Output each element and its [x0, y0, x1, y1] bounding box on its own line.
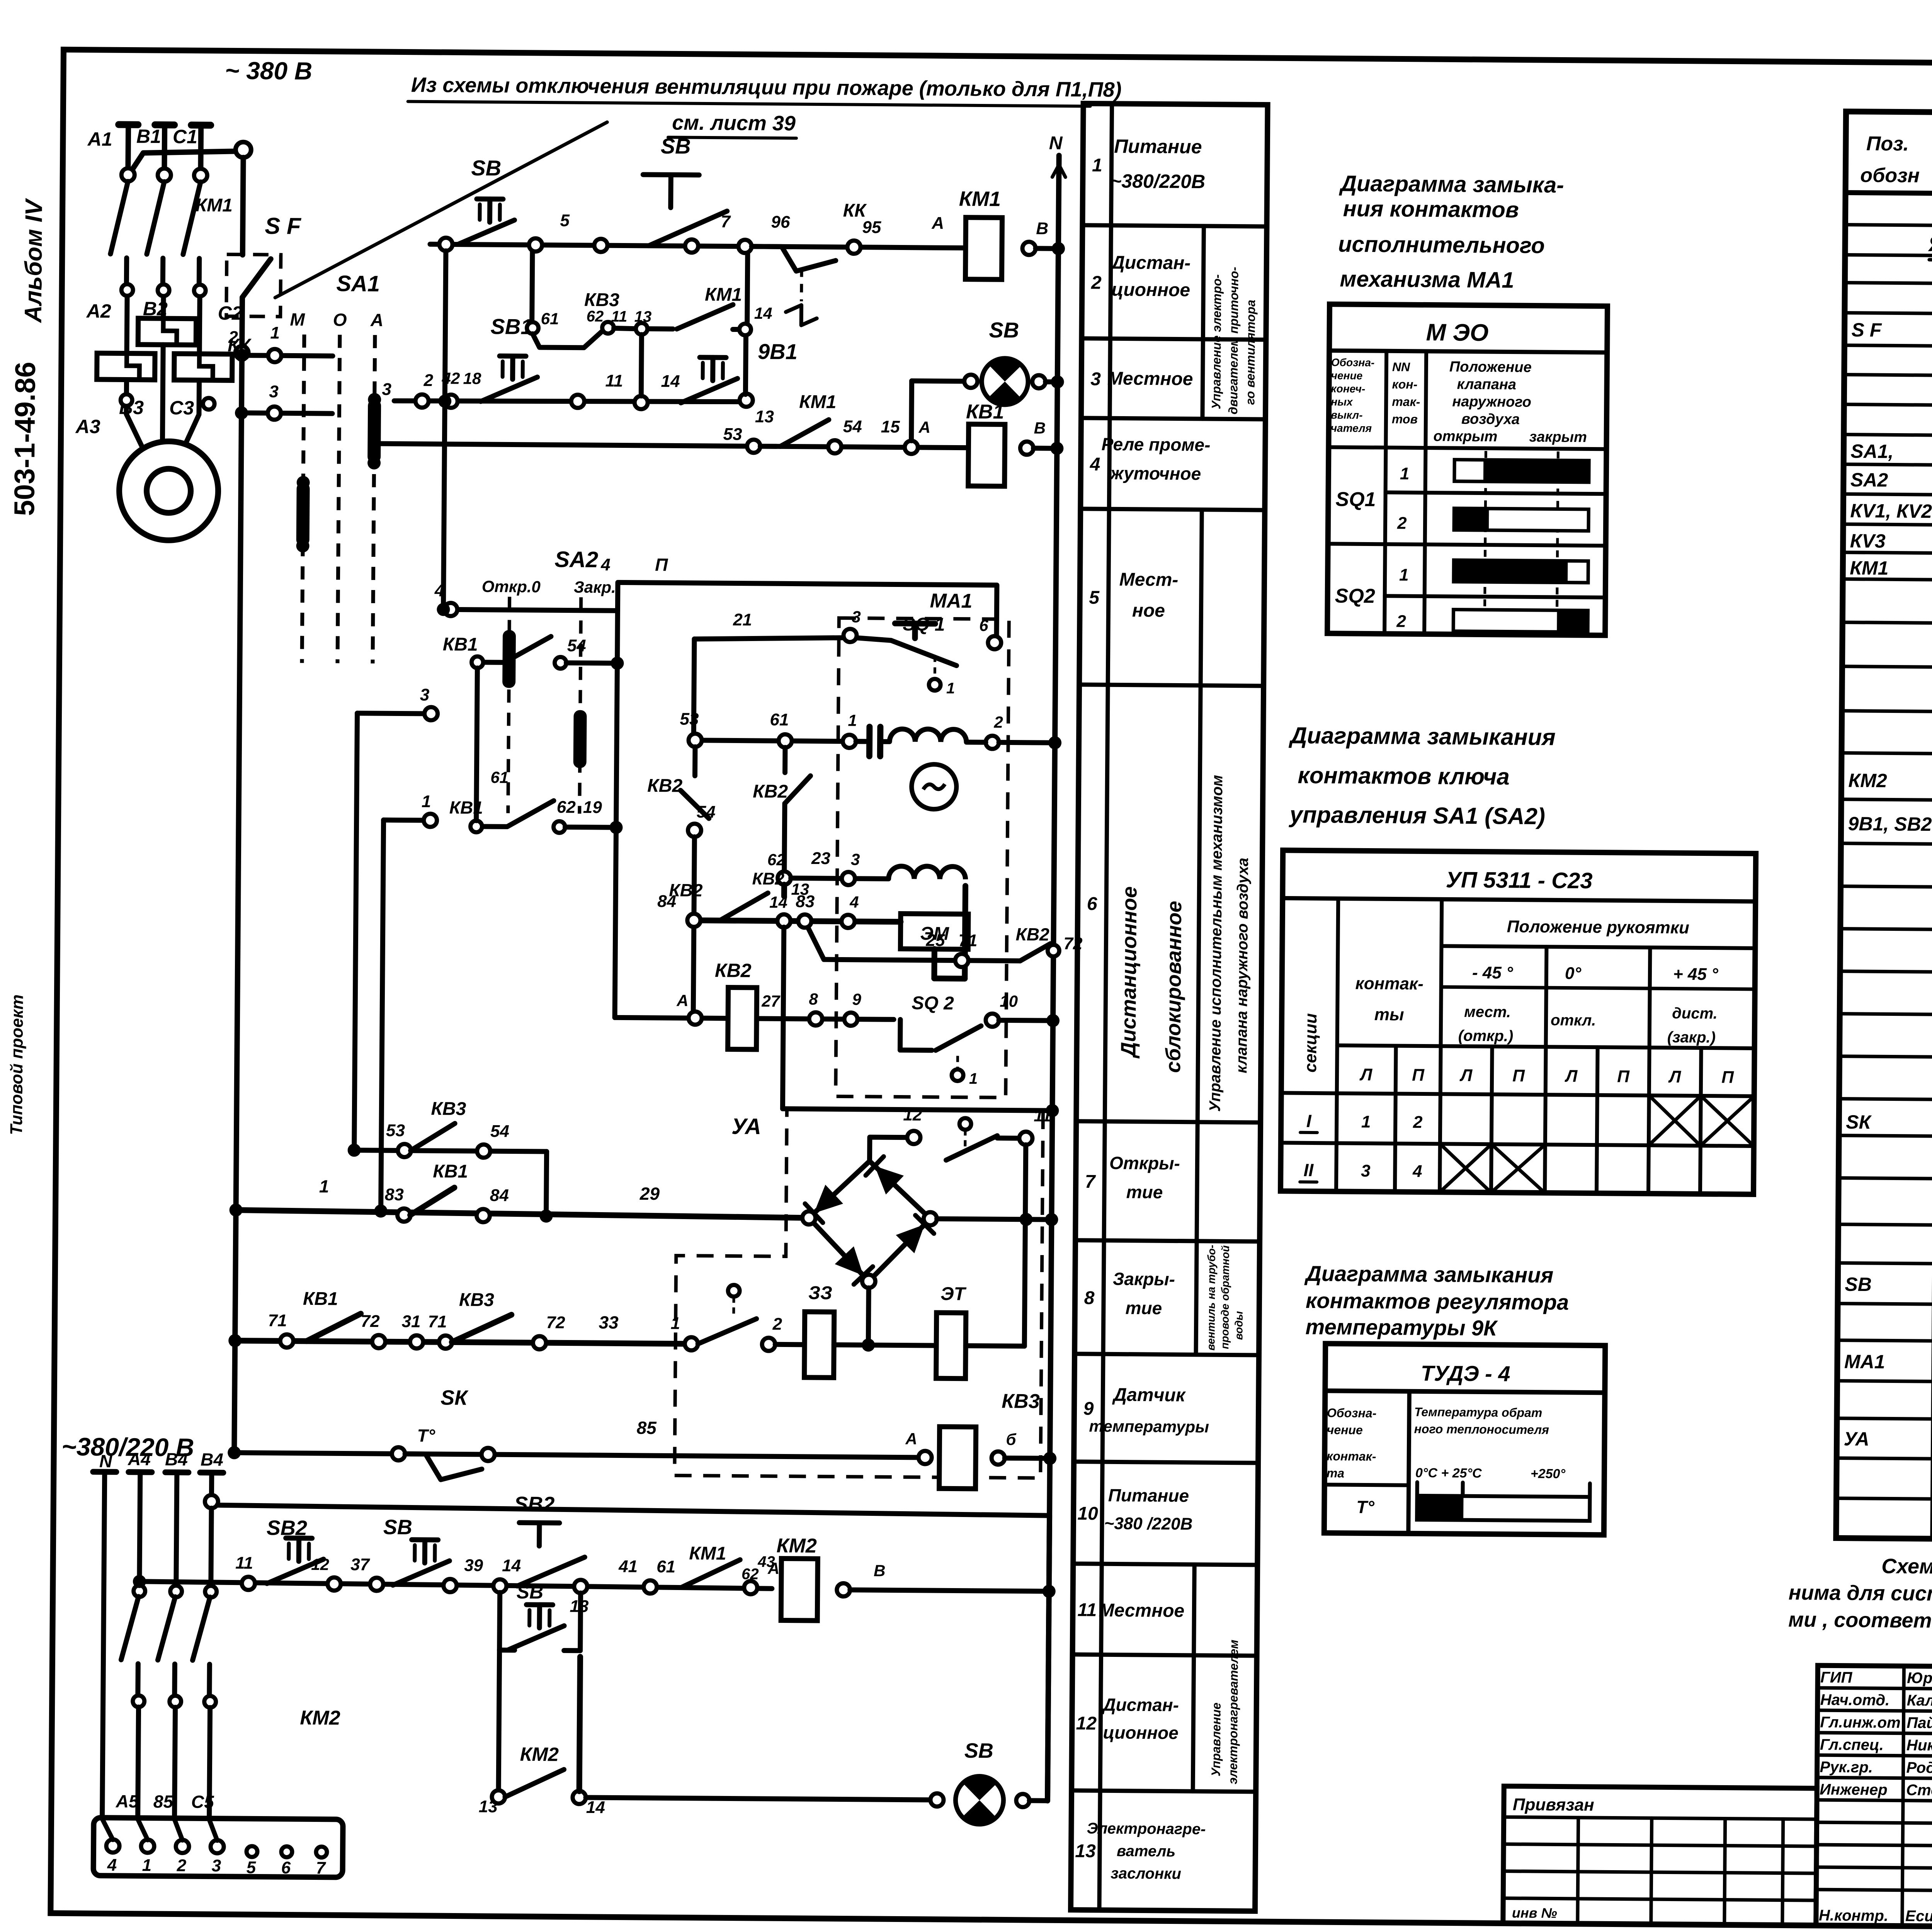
- svg-text:Дистан-: Дистан-: [1110, 252, 1190, 273]
- connector pin 4: [106, 1839, 119, 1852]
- row3 circle A: [905, 441, 918, 454]
- svg-text:О: О: [333, 310, 347, 330]
- svg-text:КМ1: КМ1: [196, 195, 233, 216]
- svg-text:Привязан: Привязан: [1513, 1795, 1594, 1815]
- svg-text:А: А: [918, 418, 931, 436]
- row11 circle b: [370, 1578, 383, 1591]
- connector pin 5: [247, 1846, 257, 1857]
- svg-text:4: 4: [434, 581, 444, 600]
- svg-text:секции: секции: [1301, 1013, 1320, 1073]
- svg-text:2: 2: [1091, 272, 1102, 293]
- row 83 KV1 84: [236, 1210, 809, 1218]
- svg-text:Ящик управления 1А.: Ящик управления 1А.: [1928, 231, 1932, 257]
- svg-text:ного теплоносителя: ного теплоносителя: [1414, 1422, 1549, 1437]
- row2 node 13: [740, 394, 753, 407]
- svg-text:П: П: [1512, 1066, 1525, 1085]
- svg-text:SА2: SА2: [1850, 469, 1888, 491]
- svg-text:ЗЗ: ЗЗ: [808, 1283, 832, 1303]
- svg-text:6: 6: [281, 1858, 291, 1877]
- svg-text:наружного: наружного: [1452, 393, 1531, 410]
- svg-text:го вентилятора: го вентилятора: [1243, 300, 1258, 405]
- svg-text:В: В: [1034, 419, 1046, 437]
- connector pin 3: [211, 1840, 224, 1853]
- svg-text:54: 54: [697, 803, 716, 821]
- svg-text:Инженер: Инженер: [1820, 1781, 1888, 1798]
- svg-text:10: 10: [1077, 1503, 1098, 1524]
- KM2 coil: [781, 1558, 818, 1621]
- svg-text:Температура обрат: Температура обрат: [1414, 1405, 1543, 1420]
- svg-text:А2: А2: [86, 300, 111, 322]
- svg-text:4: 4: [600, 555, 611, 574]
- svg-text:Положение рукоятки: Положение рукоятки: [1507, 917, 1690, 937]
- svg-text:3: 3: [1090, 369, 1101, 389]
- svg-text:SВ: SВ: [471, 156, 501, 180]
- svg-text:S F: S F: [1851, 319, 1882, 341]
- circle 2 row: [986, 736, 999, 749]
- SA1 dashed line O: [337, 335, 340, 663]
- svg-text:9: 9: [1083, 1398, 1094, 1419]
- row3 wire: [374, 444, 971, 448]
- titleblock signature grid: [1902, 1666, 1904, 1926]
- svg-text:Гл.спец.: Гл.спец.: [1820, 1736, 1884, 1753]
- svg-text:Н.контр.: Н.контр.: [1819, 1907, 1888, 1924]
- row 53-61 wire: [695, 740, 867, 742]
- svg-text:Л: Л: [1565, 1067, 1578, 1086]
- svg-text:МА1: МА1: [930, 590, 972, 612]
- svg-text:А: А: [676, 991, 689, 1009]
- KV2 coil row wire: [615, 1017, 894, 1019]
- svg-text:85: 85: [637, 1418, 657, 1438]
- svg-text:А: А: [931, 214, 944, 233]
- svg-text:+250°: +250°: [1531, 1466, 1566, 1481]
- svg-text:так-: так-: [1392, 395, 1420, 409]
- svg-text:Есина: Есина: [1905, 1908, 1932, 1925]
- svg-text:откл.: откл.: [1551, 1012, 1596, 1029]
- svg-text:SQ 2: SQ 2: [912, 993, 954, 1014]
- button SB row11: [412, 1537, 438, 1542]
- SB parallel branch: [500, 1592, 500, 1650]
- svg-text:ЭТ: ЭТ: [940, 1284, 967, 1304]
- svg-text:13: 13: [479, 1797, 498, 1816]
- svg-text:9В1: 9В1: [758, 339, 798, 364]
- SA2 dashed line 1: [508, 597, 510, 813]
- svg-text:- 45 °: - 45 °: [1472, 963, 1513, 983]
- KV2 row right: [1046, 1014, 1060, 1027]
- row1 circle 7: [685, 240, 698, 253]
- svg-text:Юрин: Юрин: [1907, 1670, 1932, 1687]
- row8 contact KV1: [280, 1334, 293, 1347]
- vt subcol line rows 7-8: [1196, 1122, 1197, 1355]
- svg-text:ционное: ционное: [1103, 1722, 1179, 1743]
- svg-text:12: 12: [311, 1555, 329, 1573]
- svg-text:~ 380 В: ~ 380 В: [225, 56, 312, 85]
- bridge top wire: [870, 1137, 914, 1162]
- svg-text:10: 10: [1000, 992, 1018, 1010]
- KV2 contact b: [781, 884, 787, 896]
- phase bus terminal 1: [119, 121, 138, 128]
- SF callout line: [275, 120, 607, 300]
- feeder tap circle: [205, 1495, 218, 1508]
- svg-text:А: А: [767, 1559, 780, 1577]
- svg-text:Местное: Местное: [1107, 368, 1193, 389]
- svg-text:SQ 1: SQ 1: [903, 614, 945, 635]
- svg-text:84: 84: [490, 1186, 509, 1205]
- svg-text:Мест-: Мест-: [1119, 569, 1179, 590]
- svg-text:41: 41: [618, 1557, 638, 1576]
- svg-text:~380 /220В: ~380 /220В: [1104, 1514, 1192, 1534]
- svg-text:6: 6: [1087, 894, 1097, 914]
- svg-text:SВ2: SВ2: [267, 1516, 307, 1540]
- row11 node: [493, 1579, 507, 1592]
- left branch 1230: [476, 668, 478, 821]
- row 25-71 wire: [824, 959, 1020, 961]
- svg-text:КV1, КV2: КV1, КV2: [1850, 500, 1932, 522]
- EM loop: [965, 886, 966, 979]
- svg-text:SВ: SВ: [517, 1581, 544, 1603]
- svg-text:0°С + 25°С: 0°С + 25°С: [1415, 1466, 1482, 1481]
- row11 circle 13: [574, 1580, 587, 1593]
- button SB1: [500, 354, 526, 359]
- svg-text:конеч-: конеч-: [1331, 383, 1365, 395]
- svg-text:23: 23: [811, 849, 830, 868]
- row circles 8 9: [809, 1012, 822, 1026]
- svg-text:11: 11: [1034, 1106, 1051, 1125]
- svg-text:вентиль на трубо-: вентиль на трубо-: [1205, 1245, 1218, 1350]
- UP seccii col: [1336, 898, 1338, 1191]
- button 9B1: [700, 355, 726, 360]
- svg-text:13: 13: [755, 407, 774, 426]
- svg-text:SВ: SВ: [964, 1739, 993, 1763]
- svg-text:контактов регулятора: контактов регулятора: [1306, 1288, 1569, 1315]
- diode 2: [874, 1166, 904, 1195]
- svg-text:Типовой проект: Типовой проект: [7, 994, 27, 1135]
- svg-text:8: 8: [1084, 1288, 1095, 1308]
- svg-text:71: 71: [428, 1312, 447, 1331]
- SA1 dashed line A: [372, 335, 375, 663]
- diode 1: [814, 1185, 843, 1213]
- svg-text:72: 72: [361, 1312, 380, 1331]
- left branch x920: [354, 713, 357, 1150]
- button SB2 b: [519, 1520, 560, 1526]
- svg-text:62: 62: [557, 798, 576, 816]
- button SB parallel: [526, 1602, 553, 1607]
- YA dashed box: [675, 1109, 1043, 1478]
- svg-text:ния контактов: ния контактов: [1343, 196, 1519, 222]
- svg-text:Л: Л: [1668, 1067, 1681, 1086]
- svg-text:КВ2: КВ2: [669, 880, 703, 900]
- svg-text:Нач.отд.: Нач.отд.: [1820, 1691, 1890, 1709]
- svg-text:18: 18: [463, 369, 481, 388]
- svg-text:Дистан-: Дистан-: [1101, 1694, 1179, 1715]
- UP X I b: [1701, 1096, 1754, 1146]
- MEO title row: [1329, 350, 1607, 352]
- KV2 coil: [728, 987, 757, 1049]
- svg-text:чение: чение: [1327, 1423, 1363, 1437]
- svg-text:SА1: SА1: [336, 271, 380, 296]
- svg-text:NN: NN: [1392, 360, 1410, 374]
- svg-text:инв №: инв №: [1512, 1905, 1557, 1921]
- svg-text:А3: А3: [75, 416, 100, 437]
- svg-text:14: 14: [502, 1556, 521, 1575]
- svg-text:7: 7: [1085, 1172, 1096, 1192]
- svg-text:5: 5: [247, 1858, 256, 1877]
- diag 83 to 25row: [808, 927, 824, 959]
- connector wires: [102, 1819, 113, 1840]
- svg-text:15: 15: [881, 417, 900, 436]
- svg-text:Родионова: Родионова: [1906, 1759, 1932, 1777]
- svg-text:31: 31: [401, 1312, 420, 1331]
- SA1 closed bar M: [296, 483, 310, 546]
- svg-text:та: та: [1327, 1466, 1345, 1480]
- svg-text:SВ: SВ: [383, 1515, 412, 1539]
- svg-text:SК: SК: [440, 1386, 469, 1410]
- titleblock signature box: [1816, 1665, 1932, 1927]
- svg-text:61: 61: [541, 310, 559, 328]
- svg-text:39: 39: [464, 1556, 483, 1575]
- KV1 aux 53-54: [478, 636, 551, 663]
- svg-text:62: 62: [587, 308, 604, 325]
- parts table outer: [1836, 112, 1932, 1544]
- svg-text:1: 1: [1400, 464, 1410, 483]
- UP X II b: [1491, 1144, 1545, 1193]
- svg-text:І: І: [1306, 1111, 1312, 1131]
- KV1 aux 61-62-19: [476, 800, 554, 827]
- svg-text:КМ1: КМ1: [799, 392, 837, 413]
- svg-text:КВ3: КВ3: [1002, 1390, 1040, 1413]
- wire 21 row: [694, 637, 844, 640]
- svg-text:С5: С5: [191, 1792, 215, 1812]
- svg-text:ТУДЭ - 4: ТУДЭ - 4: [1421, 1361, 1510, 1386]
- KV3 coil A: [918, 1451, 932, 1464]
- svg-text:4: 4: [1412, 1162, 1422, 1181]
- svg-text:Откры-: Откры-: [1109, 1153, 1180, 1173]
- svg-text:П: П: [1721, 1068, 1734, 1087]
- svg-text:Рук.гр.: Рук.гр.: [1820, 1759, 1873, 1776]
- function table outer: [1071, 104, 1268, 1911]
- row 84-83-4 wire: [694, 920, 901, 922]
- KM1 main contact phase 1: [121, 168, 134, 181]
- connector pin 6: [281, 1846, 292, 1857]
- svg-text:SВ: SВ: [989, 318, 1019, 342]
- svg-text:КМ2: КМ2: [300, 1707, 340, 1730]
- KM1 aux contact: [636, 323, 647, 335]
- UP title row: [1282, 898, 1755, 901]
- KV3 coil out: [992, 1451, 1005, 1464]
- MEO bar row4: [1453, 610, 1588, 632]
- svg-text:КВ2: КВ2: [647, 776, 683, 796]
- svg-text:1: 1: [1399, 566, 1409, 585]
- left rail from SF: [234, 359, 242, 1453]
- svg-text:Датчик: Датчик: [1112, 1384, 1186, 1405]
- svg-text:33: 33: [599, 1312, 619, 1332]
- row1 circle 96: [738, 240, 752, 253]
- svg-text:открыт: открыт: [1433, 428, 1497, 445]
- svg-text:7: 7: [721, 212, 731, 231]
- svg-text:3: 3: [1361, 1162, 1371, 1180]
- svg-text:N: N: [1049, 133, 1063, 153]
- svg-text:проводе обратной: проводе обратной: [1219, 1245, 1231, 1349]
- svg-text:Реле проме-: Реле проме-: [1101, 434, 1210, 455]
- svg-text:503-1-49.86: 503-1-49.86: [8, 362, 41, 516]
- svg-text:14: 14: [769, 893, 787, 911]
- svg-text:Диаграмма замыка-: Диаграмма замыка-: [1338, 171, 1564, 197]
- svg-text:б: б: [1006, 1430, 1016, 1448]
- KV3 coil: [939, 1427, 976, 1489]
- svg-text:SВ: SВ: [1845, 1274, 1872, 1295]
- svg-text:КВ3: КВ3: [431, 1099, 466, 1119]
- motor feed wires: [126, 380, 144, 450]
- phase bus terminal 2: [155, 121, 174, 128]
- svg-text:клапана наружного воздуха: клапана наружного воздуха: [1233, 858, 1252, 1073]
- bridge left terminal: [802, 1211, 815, 1225]
- svg-text:71: 71: [958, 931, 977, 950]
- svg-text:29: 29: [639, 1184, 660, 1204]
- row11 circle 11: [242, 1577, 255, 1590]
- row9 wire SK: [234, 1453, 925, 1458]
- svg-text:КВ1: КВ1: [433, 1161, 468, 1182]
- svg-text:КВ2: КВ2: [753, 781, 788, 802]
- svg-text:двигателем приточно-: двигателем приточно-: [1226, 267, 1241, 414]
- row1 circle mid: [594, 239, 607, 252]
- svg-text:2: 2: [423, 371, 433, 390]
- svg-text:Т°: Т°: [417, 1425, 435, 1446]
- row11 circle 12: [328, 1577, 341, 1590]
- MEO outer: [1327, 304, 1607, 635]
- KV2 contact mid: [782, 747, 787, 772]
- row SA2-4 wire: [443, 609, 617, 611]
- diode 4: [896, 1224, 925, 1253]
- row8 left vertical: [228, 1334, 241, 1347]
- function table row lines: [1082, 225, 1267, 226]
- svg-text:мест.: мест.: [1464, 1003, 1511, 1021]
- svg-text:SQ2: SQ2: [1335, 585, 1376, 607]
- svg-text:72: 72: [546, 1313, 565, 1332]
- svg-text:Пайкин: Пайкин: [1906, 1714, 1932, 1732]
- limit switch SQ1: [844, 629, 857, 642]
- svg-text:выкл-: выкл-: [1331, 409, 1363, 421]
- svg-text:25: 25: [925, 931, 945, 950]
- KV1 coil: [968, 424, 1005, 486]
- svg-text:3: 3: [212, 1856, 221, 1875]
- svg-text:2: 2: [1396, 612, 1406, 631]
- UP X I a: [1649, 1095, 1701, 1146]
- svg-text:4: 4: [107, 1855, 117, 1874]
- vt subcol line rows 11-12: [1193, 1565, 1194, 1791]
- SA2 closed bar 2: [573, 710, 587, 768]
- UP LP row top line: [1337, 1045, 1755, 1048]
- svg-text:54: 54: [490, 1122, 509, 1141]
- svg-text:КВ2: КВ2: [715, 959, 752, 981]
- privyazan grid: [1504, 1817, 1817, 1819]
- MEO bar row2: [1454, 509, 1588, 531]
- UP data row top: [1281, 1093, 1754, 1096]
- svg-text:53: 53: [386, 1121, 405, 1140]
- branch row1 left down: [443, 251, 446, 609]
- function table num column line: [1099, 104, 1112, 1910]
- svg-text:контактов ключа: контактов ключа: [1298, 762, 1510, 790]
- svg-text:ты: ты: [1374, 1005, 1404, 1024]
- svg-text:1: 1: [969, 1070, 978, 1087]
- svg-text:Обозна-: Обозна-: [1331, 356, 1375, 369]
- svg-text:11: 11: [235, 1554, 253, 1573]
- svg-text:С1: С1: [173, 126, 197, 147]
- inductor 2: [889, 866, 966, 879]
- svg-text:А: А: [905, 1430, 917, 1448]
- svg-text:2: 2: [772, 1315, 782, 1333]
- svg-text:12: 12: [1076, 1713, 1097, 1734]
- svg-text:кон-: кон-: [1392, 377, 1417, 391]
- svg-text:SВ: SВ: [661, 134, 691, 158]
- svg-text:SК: SК: [1846, 1111, 1872, 1133]
- signal lamp SB: [981, 358, 1028, 405]
- svg-text:71: 71: [268, 1311, 287, 1330]
- svg-text:чение: чение: [1331, 369, 1363, 382]
- svg-text:(откр.): (откр.): [1458, 1027, 1514, 1045]
- svg-text:5: 5: [560, 211, 570, 230]
- row1 circle 5: [529, 238, 542, 252]
- svg-text:Поз.: Поз.: [1866, 133, 1909, 155]
- svg-text:1: 1: [142, 1856, 152, 1875]
- wire 4-P to MA1 top: [617, 582, 997, 638]
- svg-text:1: 1: [270, 323, 280, 342]
- svg-text:2: 2: [1397, 514, 1407, 532]
- svg-text:КВ3: КВ3: [584, 290, 620, 311]
- row2 circle 11: [571, 395, 584, 408]
- MEO row lines: [1386, 492, 1606, 494]
- svg-text:S F: S F: [265, 213, 301, 239]
- svg-text:А1: А1: [87, 128, 112, 150]
- svg-text:8: 8: [809, 990, 818, 1008]
- svg-text:61: 61: [656, 1557, 675, 1576]
- svg-text:тов: тов: [1392, 412, 1418, 426]
- svg-text:14: 14: [661, 372, 680, 391]
- svg-text:П: П: [1617, 1067, 1630, 1086]
- KM2 coil out: [837, 1583, 850, 1596]
- svg-text:13: 13: [1075, 1841, 1096, 1861]
- svg-text:В4: В4: [165, 1449, 188, 1469]
- UP outer: [1281, 850, 1756, 1194]
- KV2 coil circle A: [689, 1012, 702, 1025]
- svg-text:Калганов: Калганов: [1907, 1692, 1932, 1709]
- UP LP vlines: [1395, 1046, 1396, 1192]
- svg-text:14: 14: [754, 304, 772, 322]
- svg-text:ное: ное: [1132, 600, 1165, 621]
- TUDE outer: [1324, 1344, 1605, 1535]
- vt subcol line rows 2-3: [1202, 226, 1204, 419]
- svg-text:SА1,: SА1,: [1850, 440, 1894, 463]
- SA1 closed bar A: [367, 400, 381, 463]
- EM solenoid box: [900, 914, 968, 949]
- svg-text:контак-: контак-: [1355, 974, 1423, 993]
- row2 wire: [394, 399, 746, 403]
- button SB start: [643, 175, 699, 175]
- row1 wire: [430, 244, 966, 248]
- wire 11 down: [1025, 1145, 1026, 1219]
- svg-text:14: 14: [586, 1798, 605, 1817]
- svg-text:В: В: [874, 1561, 886, 1580]
- svg-text:КВ3: КВ3: [459, 1290, 495, 1311]
- svg-text:42: 42: [441, 369, 460, 387]
- connector box: [94, 1818, 343, 1877]
- svg-text:54: 54: [567, 636, 586, 655]
- svg-text:1: 1: [1361, 1112, 1371, 1131]
- bridge top contact: [959, 1118, 971, 1130]
- svg-text:SQ1: SQ1: [1335, 488, 1376, 511]
- svg-text:Никитин: Никитин: [1906, 1737, 1932, 1754]
- svg-text:1: 1: [319, 1176, 329, 1196]
- svg-text:85: 85: [153, 1791, 174, 1811]
- vertical 2028 down: [782, 927, 784, 1109]
